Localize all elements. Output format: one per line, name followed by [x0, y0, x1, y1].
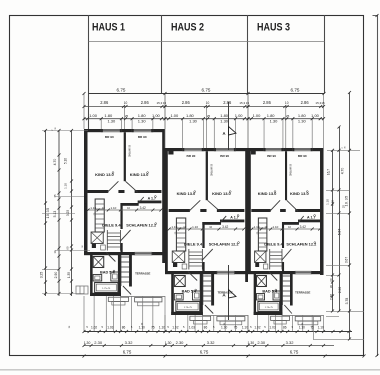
- svg-text:BR 90: BR 90: [298, 154, 307, 158]
- right dim connector: [326, 189, 350, 191]
- haus2 bath bottom wall: [171, 312, 203, 315]
- haus2 top wall seg3: [236, 148, 248, 151]
- haus2 storage door leaf: [219, 216, 226, 224]
- dim line row2: [84, 106, 324, 108]
- svg-text:3.67: 3.67: [345, 257, 349, 263]
- haus3 bottom extension lines: [247, 315, 249, 332]
- svg-text:60: 60: [329, 278, 333, 282]
- svg-text:HAUS 2: HAUS 2: [171, 22, 204, 34]
- svg-text:1.10: 1.10: [318, 325, 324, 329]
- haus1 left wall: [84, 129, 88, 252]
- haus2 window W1: [183, 148, 204, 150]
- svg-text:1.75×75: 1.75×75: [102, 287, 111, 290]
- haus2 diele small furniture: [182, 264, 187, 269]
- haus3 bath door leaf: [269, 271, 277, 280]
- dim line bottom rowB: [84, 345, 334, 347]
- svg-text:1.35: 1.35: [67, 272, 71, 278]
- svg-text:5.13: 5.13: [53, 211, 57, 218]
- svg-text:25: 25: [286, 114, 290, 118]
- svg-text:BR 90: BR 90: [220, 154, 229, 158]
- haus1 bath left wall: [90, 255, 93, 296]
- haus3 bath bottom wall: [254, 312, 283, 315]
- haus2 top extension lines: [182, 119, 184, 148]
- haus2 wall above terrace seg2: [235, 271, 248, 274]
- svg-text:1.00: 1.00: [311, 113, 320, 118]
- haus2 hall wall seg A: [169, 209, 190, 212]
- haus3 storage door leaf: [297, 216, 304, 224]
- haus3 terrace steps: [295, 317, 320, 321]
- haus2 entry door leaf: [205, 305, 213, 314]
- svg-text:25: 25: [125, 114, 129, 118]
- haus1 bath door leaf: [106, 252, 115, 261]
- svg-text:A: A: [222, 131, 225, 136]
- haus2 window W2 jamb: [214, 148, 216, 151]
- haus3 bathtub: [258, 302, 280, 312]
- haus2 hall wall seg C: [217, 209, 244, 212]
- svg-text:TERRASSE: TERRASSE: [295, 291, 310, 295]
- svg-text:6.75: 6.75: [200, 349, 209, 354]
- haus3 wall between children rooms: [285, 151, 287, 200]
- svg-text:1.30: 1.30: [298, 118, 307, 123]
- haus3 party wall head pillar: [251, 148, 256, 155]
- svg-text:1.10: 1.10: [326, 199, 330, 205]
- haus1 terrace door/window: [135, 252, 152, 255]
- haus2 wall between children rooms: [206, 151, 208, 200]
- svg-text:15: 15: [321, 101, 325, 105]
- svg-text:2.90: 2.90: [338, 287, 342, 293]
- svg-text:30: 30: [329, 285, 333, 289]
- haus2 bath left wall: [171, 274, 174, 315]
- svg-text:KIND 13.0: KIND 13.0: [177, 191, 196, 196]
- svg-text:75: 75: [151, 325, 155, 329]
- haus2 schlafen top wall: [202, 222, 221, 225]
- haus1 storage wall: [138, 201, 162, 204]
- haus1 cellar steps outside bath: [76, 286, 88, 294]
- haus1 washbasin: [93, 275, 102, 282]
- svg-text:86: 86: [122, 325, 126, 329]
- svg-text:2.30: 2.30: [176, 340, 185, 345]
- haus3 diele shaft box: [255, 251, 266, 263]
- haus3 top extension lines: [263, 119, 265, 148]
- haus1 door leaf kind2: [126, 181, 138, 192]
- title separator HAUS1/2: [161, 15, 163, 94]
- svg-text:1.30: 1.30: [248, 341, 255, 345]
- haus1 window W1: [101, 129, 121, 131]
- svg-text:86: 86: [283, 325, 287, 329]
- svg-text:10: 10: [124, 101, 128, 105]
- haus2 washbasin: [174, 294, 183, 301]
- haus3 diele small furniture: [264, 264, 268, 269]
- svg-text:HAUS 1: HAUS 1: [92, 22, 125, 34]
- svg-text:3.32: 3.32: [207, 340, 216, 345]
- haus1 diele small furniture: [101, 245, 106, 250]
- svg-text:TERRASSE: TERRASSE: [135, 272, 150, 276]
- haus2 terrace steps: [217, 317, 245, 321]
- svg-text:65 WÄRME: 65 WÄRME: [210, 164, 213, 176]
- haus1 hall wall seg B: [118, 190, 124, 193]
- title separator HAUS3 right: [324, 15, 326, 94]
- haus2 bottom extension lines: [164, 315, 166, 332]
- svg-text:1.80: 1.80: [220, 113, 229, 118]
- scanner paper edge: [0, 369, 380, 371]
- cellar step line2: [83, 286, 85, 294]
- svg-text:1.10: 1.10: [192, 225, 198, 229]
- haus3 hall wall seg C: [295, 209, 320, 212]
- haus1 shaft pillar: [92, 243, 96, 248]
- haus2 wall above terrace seg1: [165, 271, 217, 274]
- svg-text:DIELE 9.4: DIELE 9.4: [264, 242, 283, 247]
- svg-text:3.32: 3.32: [125, 340, 134, 345]
- haus2 top wall seg1: [165, 148, 183, 151]
- haus3 wall above terrace seg1: [248, 271, 295, 274]
- svg-text:1.00: 1.00: [89, 113, 98, 118]
- haus2 door leaf kind2: [208, 200, 220, 211]
- left dim line A: [45, 130, 47, 296]
- svg-text:KIND 13.0: KIND 13.0: [130, 172, 149, 177]
- svg-text:SCHLAFEN 12.2: SCHLAFEN 12.2: [286, 241, 317, 246]
- haus2 bathtub: [176, 302, 200, 312]
- left dim line C: [71, 130, 73, 296]
- svg-text:3.78: 3.78: [345, 298, 349, 305]
- haus3 bath right wall: [280, 271, 283, 315]
- svg-text:1.80: 1.80: [104, 113, 113, 118]
- svg-text:1.30: 1.30: [165, 341, 172, 345]
- svg-text:15: 15: [163, 101, 167, 105]
- haus2 interior dim line: [169, 228, 244, 230]
- svg-text:4.70: 4.70: [341, 168, 345, 175]
- svg-text:2.30: 2.30: [257, 340, 266, 345]
- haus3 door leaf kind1: [270, 200, 280, 211]
- haus1 bottom extension lines: [83, 296, 85, 332]
- haus3 entry door leaf: [284, 305, 292, 314]
- svg-text:SCHLAFEN 12.2: SCHLAFEN 12.2: [209, 241, 240, 246]
- svg-text:6.75: 6.75: [202, 87, 211, 92]
- svg-text:1.80: 1.80: [298, 113, 307, 118]
- haus2 bath right wall: [200, 271, 203, 315]
- right outer dimension line: [377, 15, 379, 356]
- haus2 hall wall seg B: [200, 209, 206, 212]
- svg-text:1.30: 1.30: [220, 118, 229, 123]
- haus3 hall wall seg A: [251, 209, 270, 212]
- haus2 storage wall: [220, 220, 244, 223]
- svg-text:1.10: 1.10: [159, 325, 165, 329]
- haus3 wardrobe in diele: [258, 218, 267, 251]
- right dim line 3: [349, 93, 351, 340]
- haus2 shaft pillar: [173, 262, 177, 267]
- haus3 wall above terrace seg2: [311, 271, 323, 274]
- svg-text:10: 10: [206, 101, 210, 105]
- svg-text:5.57: 5.57: [338, 229, 342, 236]
- svg-text:3.25: 3.25: [39, 272, 43, 279]
- svg-text:3.32: 3.32: [286, 340, 295, 345]
- svg-text:BR 90: BR 90: [105, 135, 114, 139]
- svg-text:1.10: 1.10: [63, 183, 67, 189]
- right dim line 1: [332, 150, 334, 311]
- haus3 window W1: [264, 148, 283, 150]
- haus1 storage door leaf: [137, 197, 144, 205]
- svg-text:60: 60: [66, 246, 70, 250]
- svg-text:1.00: 1.00: [170, 113, 179, 118]
- svg-text:HAUS 3: HAUS 3: [257, 22, 290, 34]
- svg-text:A 1.7: A 1.7: [307, 215, 315, 219]
- haus3 bath left wall: [254, 274, 256, 315]
- svg-text:6.75: 6.75: [123, 349, 132, 354]
- svg-text:1.02: 1.02: [172, 325, 178, 329]
- haus2 schlafen left wall upper: [202, 222, 204, 248]
- haus1 entry door leaf: [123, 286, 131, 295]
- haus3 entry stairs: [282, 275, 290, 277]
- haus2 diele shaft box: [172, 251, 184, 263]
- haus1 top wall seg3: [153, 129, 165, 132]
- haus2 bath door leaf: [188, 271, 197, 280]
- left dim connector: [42, 293, 84, 295]
- svg-text:4.70: 4.70: [53, 159, 57, 166]
- haus2 top wall seg2: [203, 148, 214, 151]
- svg-text:BR 90: BR 90: [267, 154, 276, 158]
- svg-text:25: 25: [207, 114, 211, 118]
- haus1 stair wall: [129, 252, 132, 287]
- haus1 schlafen left wall stub: [120, 243, 122, 252]
- haus1 diele shaft box: [91, 232, 103, 244]
- outer line top stub: [373, 15, 378, 17]
- haus1 wall between children rooms: [124, 132, 126, 181]
- svg-text:1.30: 1.30: [84, 341, 91, 345]
- haus1 wardrobe in diele: [95, 199, 104, 232]
- left dim connector: [42, 268, 59, 270]
- haus2 party wall head pillar: [168, 148, 173, 155]
- svg-text:1.00: 1.00: [152, 113, 161, 118]
- svg-text:15,3: 15,3: [157, 101, 163, 105]
- haus1 wall above terrace seg2: [152, 252, 165, 255]
- svg-text:BR 90: BR 90: [187, 154, 196, 158]
- haus3 window W2: [293, 148, 312, 150]
- svg-text:1.10: 1.10: [272, 225, 278, 229]
- svg-text:3.42: 3.42: [140, 206, 146, 210]
- haus2 stair wall: [211, 271, 214, 306]
- haus3 interior dim line: [252, 228, 320, 230]
- haus1 hall wall seg C: [135, 190, 162, 193]
- left dim line B: [58, 130, 60, 296]
- svg-text:1.80: 1.80: [138, 113, 147, 118]
- dim line 6.75 row: [89, 93, 325, 95]
- haus2 wardrobe in diele: [176, 218, 185, 251]
- haus1 terrace slab edge: [120, 296, 165, 298]
- svg-text:1.10: 1.10: [242, 325, 248, 329]
- haus3 terrace door/window: [295, 271, 311, 274]
- right dim connector: [326, 212, 350, 214]
- haus3 left wall: [248, 148, 251, 271]
- left dim connector: [55, 196, 84, 198]
- title row underline: [89, 41, 325, 43]
- svg-text:KIND 13.0: KIND 13.0: [95, 172, 114, 177]
- svg-text:1.00: 1.00: [235, 113, 244, 118]
- svg-text:1.80: 1.80: [267, 113, 276, 118]
- dim line row3: [84, 118, 324, 120]
- haus2 terrace door/window: [217, 271, 235, 274]
- haus3 terrace slab edge: [282, 315, 324, 317]
- svg-text:1.75×75: 1.75×75: [184, 306, 193, 309]
- svg-text:SCHLAFEN 12.2: SCHLAFEN 12.2: [126, 222, 157, 227]
- haus1 interior stairs: [106, 230, 108, 251]
- haus3 porch steps: [271, 316, 290, 320]
- haus3 wc: [273, 291, 281, 300]
- svg-text:1.10: 1.10: [254, 225, 260, 229]
- haus1 wall above terrace seg1: [84, 252, 135, 255]
- svg-text:1.75×75: 1.75×75: [265, 306, 274, 309]
- svg-text:2.86: 2.86: [141, 100, 150, 105]
- right dim connector: [326, 274, 339, 276]
- svg-text:1.30: 1.30: [138, 118, 147, 123]
- svg-text:6.75: 6.75: [290, 349, 299, 354]
- haus3 storage wall: [298, 220, 320, 223]
- title separator HAUS2/3: [247, 15, 249, 94]
- haus3 schlafen left wall stub: [282, 262, 284, 271]
- svg-text:KIND 13.0: KIND 13.0: [212, 191, 231, 196]
- right dim line 2: [339, 127, 341, 311]
- svg-text:1.30: 1.30: [107, 118, 116, 123]
- svg-text:2.66: 2.66: [329, 294, 333, 300]
- svg-text:5.10: 5.10: [63, 158, 67, 164]
- svg-text:1.10: 1.10: [110, 206, 116, 210]
- haus2 schlafen left wall stub: [202, 262, 204, 271]
- svg-text:2.86: 2.86: [182, 100, 191, 105]
- svg-text:10.35: 10.35: [345, 196, 349, 207]
- svg-text:10: 10: [285, 101, 289, 105]
- svg-text:2.90: 2.90: [54, 272, 58, 279]
- svg-text:DIELE 9.4: DIELE 9.4: [102, 223, 121, 228]
- haus1 schlafen left wall upper: [120, 203, 122, 229]
- haus3 washbasin: [257, 294, 265, 301]
- svg-text:3.25: 3.25: [66, 210, 70, 216]
- haus1 porch steps: [108, 297, 128, 301]
- haus2 entry stairs: [203, 275, 211, 277]
- haus1 hall wall seg A: [88, 190, 109, 193]
- right dim connector: [326, 310, 364, 312]
- title separator left: [88, 15, 90, 129]
- right dim connector vert: [313, 316, 315, 340]
- svg-text:1.10: 1.10: [171, 225, 177, 229]
- haus3 window W2 jamb: [293, 148, 295, 151]
- haus2 porch steps: [190, 316, 211, 320]
- haus1 terrace steps: [135, 298, 162, 302]
- haus1 shower: [93, 257, 104, 268]
- haus1 window W2 jamb: [132, 129, 134, 132]
- svg-text:DIELE 9.4: DIELE 9.4: [184, 242, 203, 247]
- haus1 schlafen door leaf: [120, 230, 131, 242]
- svg-text:BR 90: BR 90: [138, 135, 147, 139]
- haus3 schlafen door leaf: [282, 249, 292, 261]
- haus3 door leaf kind2: [287, 200, 298, 211]
- haus3 top wall seg2: [283, 148, 293, 151]
- svg-text:1.02: 1.02: [254, 325, 260, 329]
- haus1 door leaf kind1: [107, 181, 118, 192]
- left dim connector: [55, 250, 90, 252]
- haus2 right wall: [245, 148, 248, 282]
- haus1 top extension lines: [100, 119, 102, 129]
- haus1 bathtub: [95, 283, 118, 293]
- haus2 terrace slab edge: [202, 315, 248, 317]
- right dim connector: [313, 338, 364, 340]
- svg-text:3.42: 3.42: [300, 225, 306, 229]
- haus1 top wall seg2: [121, 129, 132, 132]
- haus3 interior stairs: [269, 249, 271, 270]
- haus1 window W1 jamb: [101, 129, 103, 132]
- svg-text:75: 75: [234, 325, 238, 329]
- section marker A bottom: [228, 265, 230, 320]
- svg-text:6.75: 6.75: [117, 87, 126, 92]
- haus3 shower: [257, 276, 267, 287]
- haus2 interior stairs: [188, 249, 190, 270]
- haus2 window W2: [214, 148, 235, 150]
- haus2 shower: [174, 276, 185, 287]
- haus2 wc: [192, 291, 200, 300]
- haus3 stair wall: [290, 271, 293, 306]
- svg-text:2.86: 2.86: [100, 100, 109, 105]
- haus2 window W1 jamb: [183, 148, 185, 151]
- haus3 top wall seg1: [248, 148, 264, 151]
- svg-text:1.02: 1.02: [91, 325, 97, 329]
- haus2 door leaf kind1: [189, 200, 200, 211]
- haus3 schlafen left wall upper: [282, 222, 284, 248]
- haus1 wc: [111, 272, 119, 281]
- left dim connector: [42, 213, 75, 215]
- svg-text:1.10: 1.10: [90, 206, 96, 210]
- cellar step line: [79, 286, 81, 294]
- haus1 top wall seg1: [84, 129, 101, 132]
- svg-text:65 WÄRME: 65 WÄRME: [289, 164, 292, 176]
- haus1 window W2: [132, 129, 153, 131]
- svg-text:10.35: 10.35: [46, 208, 50, 219]
- haus3 shaft pillar: [255, 262, 259, 267]
- svg-text:16,7: 16,7: [327, 169, 331, 175]
- svg-text:1.03: 1.03: [269, 325, 275, 329]
- haus2 schlafen door leaf: [202, 249, 213, 261]
- right dim connector: [327, 149, 360, 151]
- dim line bottom rowA: [84, 331, 352, 333]
- svg-text:1.00: 1.00: [253, 113, 262, 118]
- haus1 entry stairs: [121, 256, 129, 258]
- haus3 right wall: [320, 148, 324, 275]
- haus1 interior dim line: [88, 209, 161, 211]
- right dim connector: [326, 315, 339, 317]
- svg-text:1.30: 1.30: [330, 200, 334, 206]
- haus3 window W1 jamb: [264, 148, 266, 151]
- svg-text:1.03: 1.03: [189, 325, 195, 329]
- svg-text:2.86: 2.86: [301, 100, 310, 105]
- haus2 left wall: [165, 148, 168, 271]
- haus3 hall wall seg B: [280, 209, 286, 212]
- haus3 top wall seg3: [312, 148, 323, 151]
- svg-text:1.30: 1.30: [189, 118, 198, 123]
- svg-text:1.30: 1.30: [270, 118, 279, 123]
- svg-text:6.75: 6.75: [291, 87, 300, 92]
- haus1 bath right wall: [118, 252, 121, 296]
- section marker A top: [228, 102, 230, 150]
- haus1 right wall: [162, 129, 165, 263]
- svg-text:65 WÄRME: 65 WÄRME: [128, 145, 131, 157]
- svg-text:3.42: 3.42: [222, 225, 228, 229]
- svg-text:1.03: 1.03: [107, 325, 113, 329]
- right dim connector: [326, 264, 350, 266]
- left dim connector: [42, 130, 88, 132]
- haus3 schlafen top wall: [282, 222, 299, 225]
- svg-text:15,3: 15,3: [239, 101, 245, 105]
- svg-text:2.30: 2.30: [94, 340, 103, 345]
- haus1 bath bottom wall: [90, 293, 121, 296]
- svg-text:75: 75: [53, 194, 57, 198]
- svg-text:2.86: 2.86: [223, 100, 232, 105]
- svg-text:86: 86: [204, 325, 208, 329]
